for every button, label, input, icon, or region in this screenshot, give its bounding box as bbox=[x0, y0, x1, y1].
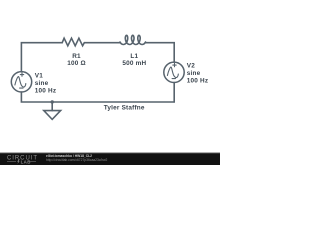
footer CircuitLab logo lightning bolt bbox=[17, 159, 20, 164]
svg-text:sine: sine bbox=[35, 80, 49, 87]
footer CircuitLab logo underline rules bbox=[7, 160, 36, 162]
svg-text:V1: V1 bbox=[35, 73, 43, 80]
svg-text:L1: L1 bbox=[130, 53, 138, 60]
wire: V2 bottom lead bbox=[173, 83, 175, 103]
resistor R1 zigzag bbox=[62, 38, 84, 46]
svg-text:100 Hz: 100 Hz bbox=[187, 78, 208, 85]
V2 plus sign bbox=[173, 63, 176, 66]
svg-text:sine: sine bbox=[187, 70, 201, 77]
footer bar top edge highlight bbox=[0, 152, 220, 155]
svg-text:100 Hz: 100 Hz bbox=[35, 88, 56, 95]
wire: V1 bottom lead and bottom rail bbox=[21, 92, 174, 102]
V2 minus sign bbox=[172, 78, 175, 80]
ground stub bbox=[51, 102, 53, 111]
wire: left rail from V1 up and top rail to R1 bbox=[21, 43, 62, 72]
V1 plus sign bbox=[20, 73, 23, 76]
svg-text:Tyler Staffne: Tyler Staffne bbox=[104, 105, 145, 112]
V1 sine squiggle bbox=[15, 77, 26, 87]
svg-text:100 Ω: 100 Ω bbox=[67, 60, 86, 67]
svg-text:LAB: LAB bbox=[21, 159, 31, 164]
voltage source V1 bbox=[11, 72, 31, 92]
voltage source V2 bbox=[164, 62, 184, 82]
svg-text:500 mH: 500 mH bbox=[122, 60, 146, 67]
svg-text:http://circuitlab.com/c6727p36: http://circuitlab.com/c6727p36caa23c/hw2 bbox=[46, 158, 108, 162]
V2 sine squiggle bbox=[167, 67, 178, 77]
svg-text:V2: V2 bbox=[187, 63, 195, 70]
inductor L1 coil bbox=[120, 35, 146, 44]
svg-text:R1: R1 bbox=[72, 53, 81, 60]
ground triangle bbox=[44, 111, 61, 120]
wire: top rail from L1 to right corner down to V2 bbox=[146, 43, 174, 62]
V1 minus sign bbox=[20, 87, 23, 89]
footer bar bbox=[0, 153, 220, 165]
node junction dot bbox=[51, 100, 54, 103]
wire: between R1 and L1 bbox=[84, 42, 120, 44]
